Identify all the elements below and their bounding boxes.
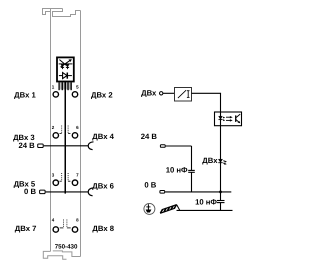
svg-text:ДВх: ДВх: [141, 88, 157, 97]
svg-text:0 В: 0 В: [24, 187, 36, 196]
svg-text:10 нФ: 10 нФ: [166, 166, 188, 175]
svg-text:24 В: 24 В: [18, 141, 35, 150]
svg-text:750-430: 750-430: [55, 243, 78, 250]
svg-text:ДВх 2: ДВх 2: [91, 90, 113, 99]
svg-text:ДВх 7: ДВх 7: [15, 224, 37, 233]
svg-text:ДВх 6: ДВх 6: [92, 181, 114, 190]
svg-text:ДВх 4: ДВх 4: [92, 132, 114, 141]
svg-text:1: 1: [52, 85, 55, 90]
svg-text:4: 4: [52, 217, 55, 222]
svg-text:ДВх: ДВх: [202, 156, 218, 165]
svg-text:7: 7: [76, 172, 79, 177]
svg-text:ДВх 1: ДВх 1: [14, 90, 36, 99]
svg-text:10 нФ: 10 нФ: [195, 198, 217, 207]
svg-text:8: 8: [76, 217, 79, 222]
svg-text:24 В: 24 В: [141, 132, 158, 141]
svg-text:2: 2: [52, 125, 55, 130]
svg-text:6: 6: [76, 125, 79, 130]
svg-text:0 В: 0 В: [144, 180, 156, 189]
svg-text:ДВх 8: ДВх 8: [92, 224, 114, 233]
svg-text:3: 3: [52, 172, 55, 177]
svg-text:5: 5: [76, 85, 79, 90]
